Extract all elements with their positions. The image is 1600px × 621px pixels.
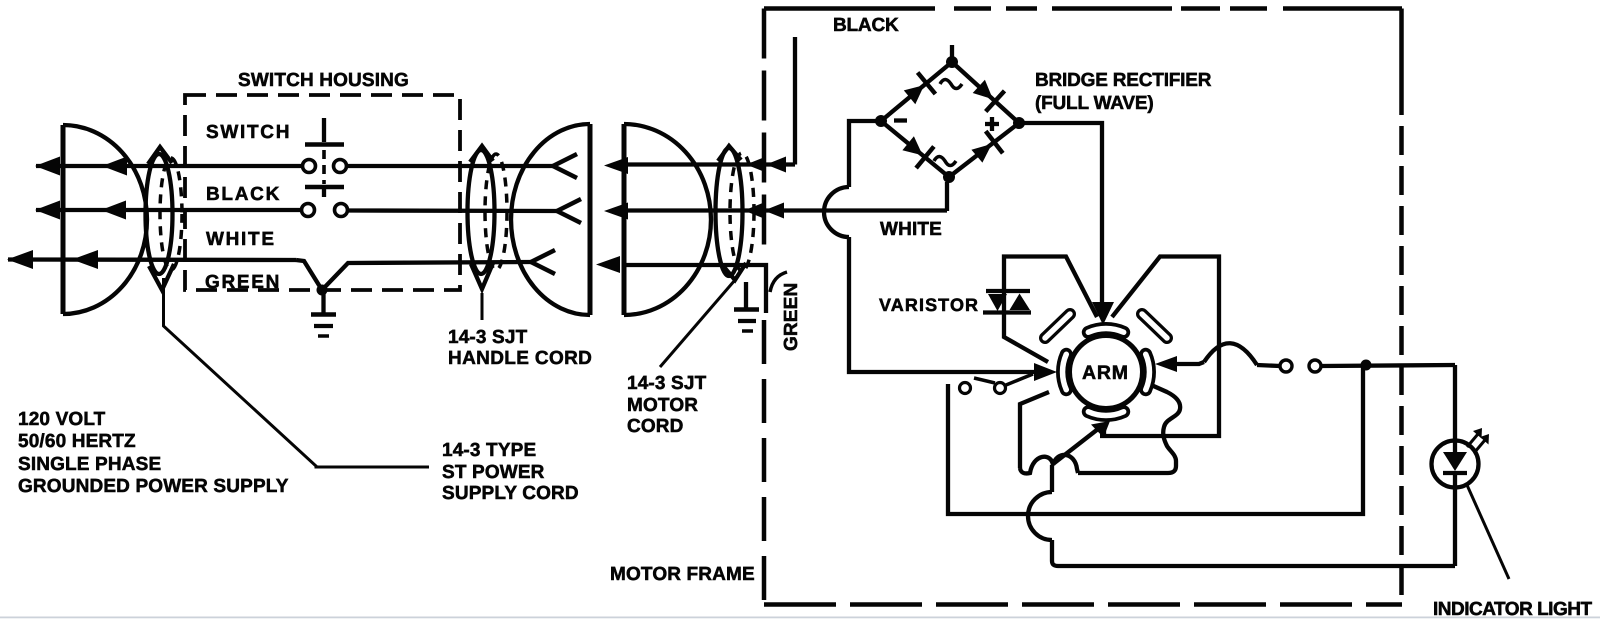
svg-text:(FULL WAVE): (FULL WAVE)	[1035, 93, 1153, 114]
svg-text:BRIDGE RECTIFIER: BRIDGE RECTIFIER	[1035, 70, 1212, 91]
svg-text:GREEN: GREEN	[781, 283, 802, 351]
svg-text:GROUNDED POWER SUPPLY: GROUNDED POWER SUPPLY	[18, 476, 289, 497]
svg-text:SINGLE PHASE: SINGLE PHASE	[18, 454, 161, 475]
svg-text:BLACK: BLACK	[833, 15, 899, 36]
svg-text:MOTOR: MOTOR	[627, 395, 698, 416]
svg-text:14-3 SJT: 14-3 SJT	[627, 373, 707, 394]
svg-text:ST POWER: ST POWER	[442, 462, 545, 483]
svg-text:SWITCH: SWITCH	[206, 122, 291, 143]
svg-text:14-3 SJT: 14-3 SJT	[448, 327, 528, 348]
svg-text:BLACK: BLACK	[206, 184, 281, 205]
svg-text:MOTOR FRAME: MOTOR FRAME	[610, 564, 755, 585]
svg-text:ARM: ARM	[1082, 362, 1129, 384]
svg-text:SWITCH HOUSING: SWITCH HOUSING	[238, 70, 409, 91]
svg-text:WHITE: WHITE	[880, 219, 942, 240]
svg-text:14-3 TYPE: 14-3 TYPE	[442, 440, 536, 461]
svg-text:VARISTOR: VARISTOR	[879, 295, 979, 315]
svg-text:CORD: CORD	[627, 416, 684, 437]
svg-text:50/60 HERTZ: 50/60 HERTZ	[18, 431, 136, 452]
svg-text:GREEN: GREEN	[205, 272, 281, 293]
svg-text:HANDLE CORD: HANDLE CORD	[448, 348, 592, 369]
svg-text:SUPPLY CORD: SUPPLY CORD	[442, 483, 579, 504]
svg-text:120 VOLT: 120 VOLT	[18, 409, 106, 430]
svg-text:WHITE: WHITE	[206, 229, 276, 250]
